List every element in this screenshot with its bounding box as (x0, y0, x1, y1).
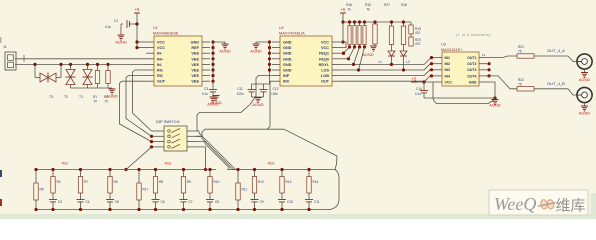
net label RG2 (165, 162, 172, 166)
wire OUT1 to R21 (487, 56, 517, 58)
svg-text:L1: L1 (378, 60, 382, 64)
ground AGND input (106, 88, 118, 99)
svg-text:R4: R4 (57, 180, 61, 184)
svg-text:R5: R5 (40, 188, 44, 192)
svg-text:T1: T1 (79, 95, 83, 99)
svg-text:VEE: VEE (191, 57, 199, 61)
resistor R14 (307, 168, 319, 193)
net label OUT_4_B (547, 81, 565, 86)
capacitor C4 (77, 193, 90, 211)
wire U1 VCC pins (135, 40, 146, 49)
resistor bank x359 (358, 20, 361, 44)
wire vert to gnd rail (432, 82, 434, 98)
svg-text:470: 470 (415, 42, 421, 46)
resistor R18 top (401, 20, 405, 44)
net label OUT_4_A (547, 48, 565, 53)
capacitor C3 (202, 81, 217, 97)
svg-text:AGND: AGND (106, 94, 118, 99)
wire bus4 (340, 64, 434, 72)
wire DIP to RG net 1 (196, 131, 236, 170)
power +5 U2 (340, 7, 346, 44)
svg-text:维库: 维库 (556, 197, 586, 214)
resistor bank R16 (348, 20, 351, 44)
capacitor C10 (278, 193, 293, 211)
svg-text:C8: C8 (215, 200, 219, 204)
watermark WeeQoo (489, 190, 588, 215)
svg-text:AGND: AGND (489, 103, 501, 108)
svg-text:13: 13 (482, 53, 486, 57)
svg-text:R1: R1 (93, 95, 97, 99)
svg-text:R13: R13 (286, 180, 292, 184)
ground AGND R15 (362, 44, 377, 57)
svg-text:C11: C11 (237, 87, 243, 91)
svg-text:IN-: IN- (157, 63, 163, 67)
wire bus6 out (340, 76, 434, 81)
resistor R1 (93, 63, 100, 104)
svg-text:+5: +5 (412, 77, 417, 82)
svg-text:GND: GND (283, 41, 292, 45)
wire bank top rail (343, 21, 411, 23)
svg-text:VCC: VCC (445, 80, 453, 84)
svg-text:AGND: AGND (579, 111, 591, 116)
svg-text:R10: R10 (214, 180, 220, 184)
svg-text:VEE: VEE (191, 52, 199, 56)
ground AGND jack B (579, 102, 591, 115)
svg-text:R8: R8 (159, 180, 163, 184)
svg-text:R21: R21 (518, 45, 524, 49)
wire RG bundle to DIP (120, 70, 152, 142)
TVS diode T1 (79, 63, 92, 99)
edge mark left 2 (0, 199, 2, 206)
label R18b (401, 3, 407, 7)
svg-text:OUT_4_A: OUT_4_A (547, 48, 565, 53)
svg-text:C4: C4 (86, 200, 90, 204)
svg-text:100n: 100n (236, 92, 243, 96)
svg-text:WeeQ: WeeQ (494, 194, 536, 214)
op-amp U1 (146, 26, 210, 86)
resistor R15 (373, 20, 377, 44)
wire R22 to jack B (534, 89, 577, 95)
svg-text:AGND: AGND (362, 52, 374, 57)
node bank drop joins (342, 52, 345, 55)
svg-text:R22: R22 (518, 78, 524, 82)
resistor R19 (409, 22, 421, 35)
resistor R21 (517, 45, 534, 58)
resistor R8 (153, 168, 163, 193)
svg-text:R18: R18 (401, 3, 407, 7)
driver U3 (434, 43, 487, 87)
svg-text:OUT2: OUT2 (467, 62, 476, 66)
capacitor C5 (106, 193, 119, 211)
svg-text:GND: GND (191, 41, 200, 45)
svg-text:C11: C11 (314, 200, 320, 204)
wire net to ladder right (267, 129, 337, 169)
svg-text:C5: C5 (115, 200, 119, 204)
wire U3 GND (487, 82, 495, 100)
svg-text:GND: GND (283, 69, 292, 73)
svg-text:AGND: AGND (219, 49, 231, 54)
svg-text:VCC: VCC (157, 41, 165, 45)
capacitor C9 (251, 193, 264, 211)
svg-text:GND: GND (469, 80, 477, 84)
wire U2 VCC join (340, 42, 346, 48)
svg-text:70: 70 (93, 100, 97, 104)
svg-text:INP: INP (283, 74, 290, 78)
svg-text:DIP SWITCH: DIP SWITCH (156, 119, 180, 124)
net label RG1 (62, 162, 69, 166)
svg-text:RG1: RG1 (62, 162, 69, 166)
svg-text:GND: GND (283, 57, 292, 61)
svg-text:R17: R17 (384, 3, 390, 7)
wire U2 GND tie (268, 40, 271, 71)
label R17b (384, 3, 390, 7)
resistor R10 (208, 168, 220, 193)
svg-text:VCC: VCC (157, 46, 165, 50)
svg-text:VCC: VCC (321, 46, 329, 50)
svg-text:C1: C1 (114, 19, 118, 23)
jack OUT_A (577, 54, 592, 69)
resistor R13 (280, 168, 292, 193)
capacitor C14 (415, 82, 428, 98)
svg-text:+5: +5 (135, 7, 140, 12)
ground AGND mid (210, 96, 222, 106)
wire ladder bottom rail (36, 209, 326, 211)
resistor R12 (252, 168, 264, 193)
svg-text:LOS: LOS (321, 69, 329, 73)
svg-text:INV: INV (283, 80, 290, 84)
filter U2 (272, 26, 340, 86)
svg-text:OUT: OUT (157, 80, 166, 84)
svg-text:R15: R15 (365, 3, 371, 7)
wire ladder top rail 3 (227, 169, 335, 171)
svg-text:LOB: LOB (321, 74, 329, 78)
svg-text:MAX4311E+: MAX4311E+ (441, 47, 463, 52)
svg-text:AGND: AGND (252, 102, 264, 107)
svg-text:FEQ1: FEQ1 (319, 52, 329, 56)
svg-text:MAX7424EUA: MAX7424EUA (279, 31, 305, 36)
wire DIP section1 feed (124, 147, 151, 171)
svg-text:IN1: IN1 (445, 56, 451, 60)
resistor R20 (409, 34, 421, 46)
wire bus2 (340, 57, 350, 60)
node DIP left junctions (150, 135, 153, 149)
svg-text:100n: 100n (271, 92, 278, 96)
svg-text:GND: GND (283, 46, 292, 50)
svg-text:75: 75 (518, 50, 522, 54)
resistor R5 (34, 168, 44, 211)
edge mark left 0 (0, 37, 2, 43)
connector J1 (3, 45, 16, 70)
wire C14 to gnd (424, 96, 497, 99)
svg-text:T3: T3 (49, 95, 53, 99)
svg-text:C9: C9 (260, 200, 264, 204)
wire U2 input net 2 (196, 81, 272, 136)
resistor R22 (517, 78, 534, 91)
wire ladder right bracket (326, 170, 339, 210)
resistor R4 (51, 168, 61, 193)
svg-text:OUT1: OUT1 (467, 56, 476, 60)
edge mark left 1 (0, 170, 2, 177)
wire under U3 (433, 98, 495, 104)
svg-text:RG3: RG3 (268, 162, 275, 166)
svg-text:AGND: AGND (210, 100, 222, 105)
svg-text:GND: GND (283, 52, 292, 56)
svg-text:RG: RG (157, 69, 163, 73)
wire ladder top rail 1 (36, 169, 216, 171)
svg-text:AGND: AGND (250, 49, 262, 54)
resistor bank x364 (363, 20, 366, 44)
resistor R7 (78, 168, 88, 193)
svg-text:VCC: VCC (321, 41, 329, 45)
ground AGND U2 (250, 42, 269, 54)
capacitor C6 (152, 193, 165, 211)
node U3 right pins (482, 53, 491, 78)
svg-text:FEQ0: FEQ0 (319, 57, 329, 61)
ground AGND jack A (579, 69, 591, 82)
capacitor C13 (260, 84, 279, 97)
capacitor C11 (305, 193, 320, 211)
wire R21 to jack A (534, 56, 577, 62)
wire bus3 (340, 58, 434, 66)
svg-text:C10: C10 (287, 200, 293, 204)
ground AGND U1 GND (213, 42, 231, 54)
svg-text:R6: R6 (114, 180, 118, 184)
svg-text:REF: REF (191, 46, 199, 50)
svg-text:IN3: IN3 (445, 68, 451, 72)
svg-text:R14: R14 (313, 180, 319, 184)
svg-text:OUT: OUT (321, 80, 330, 84)
svg-text:RG2: RG2 (165, 162, 172, 166)
ground AGND C13 (252, 97, 264, 107)
ground AGND U3 (489, 100, 501, 108)
svg-text:RDYL: RDYL (319, 63, 330, 67)
label R16 (346, 3, 352, 12)
svg-text:7k: 7k (347, 8, 351, 12)
svg-text:(1 of 4 channels): (1 of 4 channels) (456, 32, 491, 37)
wire bus5 (340, 70, 434, 76)
resistor R11 (236, 168, 248, 211)
svg-text:C13: C13 (273, 87, 279, 91)
wire DIP to RG net 3 (196, 142, 229, 170)
svg-text:L2: L2 (406, 60, 410, 64)
svg-text:C7: C7 (189, 200, 193, 204)
svg-text:OUT4: OUT4 (467, 74, 476, 78)
svg-text:MAX4460ESE: MAX4460ESE (153, 31, 179, 36)
wire U1 VEE tie (211, 40, 214, 82)
svg-text:VEE: VEE (191, 69, 199, 73)
svg-text:GND: GND (283, 63, 292, 67)
svg-text:0.1u: 0.1u (202, 92, 208, 96)
resistor R9 (181, 168, 191, 193)
wire bank drop 2 (349, 45, 357, 59)
svg-text:U1: U1 (153, 26, 158, 30)
resistor R3 (104, 63, 110, 104)
node U3 left pins (430, 56, 433, 78)
capacitor C11 (236, 84, 255, 97)
resistor bank x354 (353, 20, 356, 44)
svg-text:RG: RG (157, 74, 163, 78)
svg-text:IN-: IN- (157, 52, 163, 56)
wire input upper (15, 55, 146, 62)
svg-text:IN+: IN+ (157, 57, 164, 61)
label R15 (365, 3, 371, 12)
resistor R6 (108, 168, 118, 193)
svg-text:C14: C14 (416, 87, 422, 91)
svg-text:70: 70 (104, 100, 108, 104)
svg-text:U2: U2 (279, 26, 284, 30)
svg-text:AGND: AGND (579, 77, 591, 82)
svg-text:OUT3: OUT3 (467, 68, 476, 72)
wire U2 input net (196, 76, 272, 131)
svg-text:C6: C6 (161, 200, 165, 204)
wire bus1 (340, 52, 345, 55)
svg-text:75: 75 (518, 83, 522, 87)
net label RG3 (268, 162, 275, 166)
wire cap tie to U2 (252, 70, 270, 84)
capacitor C8 (206, 193, 219, 211)
svg-text:VEE: VEE (191, 63, 199, 67)
svg-text:IN2: IN2 (445, 62, 451, 66)
svg-text:R9: R9 (187, 180, 191, 184)
wire bank drop 4 (359, 45, 367, 71)
resistor R17 top (389, 20, 393, 44)
power +5 U3 (411, 77, 434, 84)
svg-text:C3: C3 (58, 200, 62, 204)
capacitor C3 (49, 193, 62, 211)
LED L2 (400, 45, 410, 71)
ground AGND C1 (115, 24, 127, 45)
svg-text:0.1u: 0.1u (415, 92, 421, 96)
svg-text:J1: J1 (3, 45, 7, 49)
svg-text:R12: R12 (258, 180, 264, 184)
wire OUT4 to R22 (487, 76, 517, 89)
wire bank drop 1 (344, 45, 352, 54)
svg-text:+5: +5 (341, 7, 346, 12)
wire protection ground rail (71, 87, 113, 89)
svg-text:C3: C3 (204, 87, 208, 91)
DIP switch S1 (152, 119, 197, 151)
TVS diode T2 (64, 63, 75, 99)
svg-text:R11: R11 (242, 188, 248, 192)
svg-text:VEE: VEE (191, 80, 199, 84)
TVS diode T3 (33, 63, 62, 99)
label channels note (456, 32, 491, 37)
svg-text:T2: T2 (64, 95, 68, 99)
ground AGND C3 (207, 97, 219, 107)
svg-text:AGND: AGND (115, 40, 127, 45)
wire input lower (15, 63, 146, 65)
jack OUT_B (577, 87, 592, 102)
LED L1 (378, 45, 395, 65)
svg-text:R16: R16 (346, 3, 352, 7)
svg-text:IN4: IN4 (445, 74, 451, 78)
wire bank drop 3 (354, 45, 362, 65)
power +5 U1 (134, 7, 140, 48)
wire DIP to RG net 2 (196, 136, 236, 169)
svg-text:OUT_4_B: OUT_4_B (547, 81, 565, 86)
svg-text:VEE: VEE (191, 74, 199, 78)
svg-text:R7: R7 (84, 180, 88, 184)
svg-text:0.1u: 0.1u (105, 25, 112, 29)
bottom green strip (0, 193, 596, 219)
resistor R17 (137, 168, 149, 211)
svg-text:R17: R17 (143, 188, 149, 192)
svg-text:470: 470 (415, 31, 421, 35)
capacitor C7 (180, 193, 193, 211)
wire DIP row4 drop (196, 147, 207, 171)
svg-text:7k: 7k (366, 8, 370, 12)
capacitor C1 (105, 19, 139, 29)
